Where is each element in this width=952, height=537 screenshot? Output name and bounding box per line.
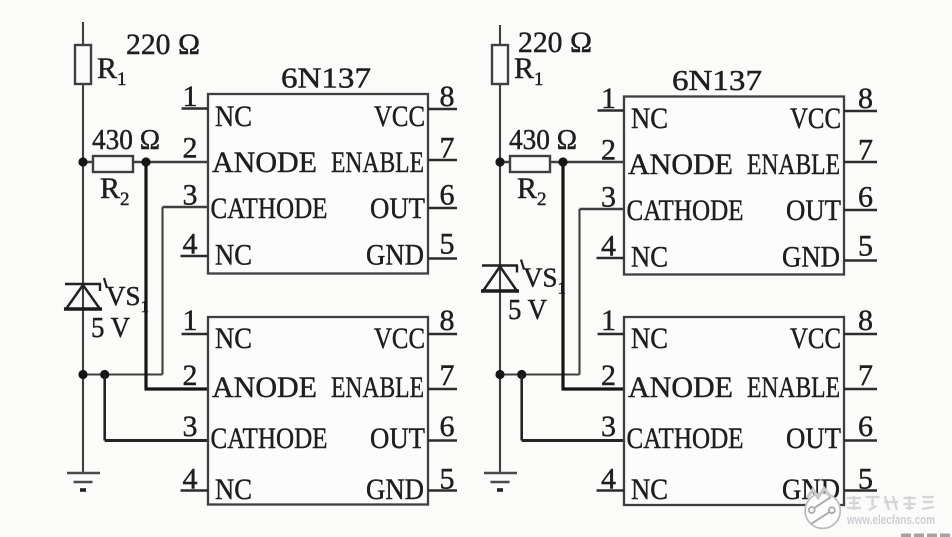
svg-text:1: 1: [601, 82, 616, 115]
svg-text:ENABLE: ENABLE: [331, 146, 424, 179]
wire left top CATHODE vertical: [161, 207, 163, 375]
svg-text:OUT: OUT: [786, 422, 841, 455]
svg-text:3: 3: [183, 179, 198, 212]
svg-text:5: 5: [858, 463, 873, 496]
junction dot right cathode-branch: [517, 370, 526, 379]
wire left bottom CATHODE vertical: [103, 375, 106, 441]
svg-text:8: 8: [440, 80, 455, 113]
optocoupler 6N137 left-top body: [208, 94, 428, 274]
junction dot left rail-lower: [78, 370, 87, 379]
junction dot right R2-output: [558, 157, 567, 166]
svg-text:GND: GND: [782, 241, 840, 274]
svg-text:2: 2: [601, 359, 616, 392]
pin 1 stub left-bottom: [182, 333, 209, 336]
svg-text:OUT: OUT: [370, 192, 425, 225]
svg-text:R1: R1: [97, 52, 127, 90]
pin 7 stub left-top: [428, 159, 457, 162]
ground left: [67, 472, 100, 475]
junction dot right rail-R2: [495, 157, 504, 166]
svg-text:6N137: 6N137: [281, 64, 371, 95]
pin 1 stub right-bottom: [598, 333, 625, 336]
svg-text:430 Ω: 430 Ω: [509, 125, 577, 156]
svg-text:430 Ω: 430 Ω: [92, 125, 160, 156]
pin 8 stub left-bottom: [428, 333, 457, 336]
svg-text:220 Ω: 220 Ω: [126, 28, 200, 61]
svg-text:NC: NC: [215, 239, 252, 272]
svg-text:5: 5: [440, 228, 455, 261]
wire right main vertical rail: [499, 25, 501, 473]
svg-text:6: 6: [440, 179, 455, 212]
svg-text:ANODE: ANODE: [212, 371, 317, 404]
wire right bottom CATHODE vertical: [520, 375, 523, 441]
svg-text:5 V: 5 V: [508, 295, 547, 326]
svg-text:ANODE: ANODE: [212, 146, 317, 179]
zener diode VS1 right triangle: [483, 267, 517, 292]
svg-text:1: 1: [183, 80, 198, 113]
svg-text:8: 8: [858, 82, 873, 115]
wire left lower node horizontal: [83, 373, 163, 375]
svg-text:OUT: OUT: [370, 422, 425, 455]
svg-text:6: 6: [440, 410, 455, 443]
pin 1 stub right-top: [598, 109, 625, 112]
svg-text:2: 2: [601, 134, 616, 167]
pin 1 stub left-top: [182, 107, 209, 110]
optocoupler 6N137 left-bottom body: [208, 317, 428, 505]
svg-text:6: 6: [858, 410, 873, 443]
junction dot left rail-R2: [78, 157, 87, 166]
svg-text:GND: GND: [366, 473, 424, 506]
pin 8 stub left-top: [428, 108, 457, 111]
svg-text:GND: GND: [366, 239, 424, 272]
svg-text:NC: NC: [631, 473, 668, 506]
svg-text:ENABLE: ENABLE: [747, 148, 840, 181]
svg-text:CATHODE: CATHODE: [627, 194, 744, 227]
svg-text:NC: NC: [215, 473, 252, 506]
svg-text:CATHODE: CATHODE: [627, 422, 744, 455]
pin 6 stub right-top: [844, 209, 877, 212]
svg-text:ENABLE: ENABLE: [747, 371, 840, 404]
svg-text:5: 5: [858, 230, 873, 263]
pin 4 stub left-top: [181, 255, 209, 258]
pin 8 stub right-bottom: [844, 333, 877, 336]
svg-text:CATHODE: CATHODE: [211, 422, 328, 455]
zener diode VS1 right cathode bar: [482, 264, 518, 267]
junction dot left cathode-branch: [100, 370, 109, 379]
svg-text:7: 7: [858, 134, 873, 167]
svg-text:2: 2: [183, 359, 198, 392]
svg-text:4: 4: [601, 463, 616, 496]
designator VS1 right: [521, 260, 524, 270]
resistor R1 right: [492, 45, 508, 84]
svg-text:4: 4: [183, 228, 198, 261]
svg-text:6N137: 6N137: [672, 66, 762, 97]
pin 8 stub right-top: [844, 110, 877, 113]
watermark elecfans logo circle: [805, 489, 840, 529]
svg-text:VS1: VS1: [106, 281, 149, 316]
svg-text:4: 4: [183, 463, 198, 496]
svg-text:8: 8: [858, 304, 873, 337]
svg-text:5 V: 5 V: [91, 313, 130, 344]
svg-text:3: 3: [183, 410, 198, 443]
svg-text:VCC: VCC: [790, 102, 841, 135]
pin 5 stub left-top: [428, 257, 457, 260]
wire left main vertical rail: [82, 22, 84, 473]
svg-text:OUT: OUT: [786, 194, 841, 227]
svg-text:NC: NC: [631, 241, 668, 274]
svg-text:VCC: VCC: [790, 322, 841, 355]
svg-text:R2: R2: [517, 172, 547, 210]
pin 6 stub left-bottom: [428, 439, 457, 442]
zener diode VS1 left cathode bar: [65, 283, 101, 286]
optocoupler 6N137 right-top body: [624, 97, 844, 275]
resistor R2 left: [93, 156, 133, 172]
pin 7 stub right-bottom: [844, 388, 877, 391]
svg-text:CATHODE: CATHODE: [211, 192, 328, 225]
pin 7 stub right-top: [844, 161, 877, 164]
wire right top CATHODE horizontal to pin3: [580, 208, 626, 210]
svg-text:VCC: VCC: [374, 100, 425, 133]
svg-text:6: 6: [858, 181, 873, 214]
junction dot right rail-lower: [495, 370, 504, 379]
svg-text:NC: NC: [631, 102, 668, 135]
svg-text:7: 7: [858, 359, 873, 392]
wire right lower node horizontal: [500, 373, 580, 375]
wire left bottom ANODE horizontal to pin2 (thick): [145, 387, 209, 390]
wire right top CATHODE vertical: [578, 209, 580, 375]
svg-text:VS1: VS1: [523, 263, 566, 298]
pin 6 stub left-top: [428, 207, 457, 210]
pin 7 stub left-bottom: [428, 388, 457, 391]
optocoupler 6N137 right-bottom body: [624, 317, 844, 505]
pin 4 stub right-bottom: [597, 489, 625, 492]
designator VS1 left: [104, 278, 107, 288]
pin 4 stub right-top: [597, 257, 625, 260]
wire left R2 row to pin2: [83, 161, 208, 163]
pin 4 stub left-bottom: [181, 489, 209, 492]
wire right bottom ANODE vertical (thick): [561, 162, 564, 389]
svg-text:ENABLE: ENABLE: [331, 371, 424, 404]
wire right bottom ANODE horizontal to pin2 (thick): [562, 387, 626, 390]
wire left bottom CATHODE horizontal to pin3: [105, 439, 208, 442]
wire right R2 row to pin2: [500, 161, 625, 163]
svg-text:www.elecfans.com: www.elecfans.com: [846, 513, 935, 527]
pin 5 stub right-bottom: [844, 489, 877, 492]
pin 6 stub right-bottom: [844, 439, 877, 442]
svg-text:1: 1: [183, 304, 198, 337]
svg-text:3: 3: [601, 181, 616, 214]
svg-text:1: 1: [601, 304, 616, 337]
wire left top CATHODE horizontal to pin3: [163, 206, 209, 208]
svg-text:NC: NC: [215, 100, 252, 133]
junction dot left R2-output: [141, 157, 150, 166]
svg-text:3: 3: [601, 410, 616, 443]
pin 5 stub right-top: [844, 259, 877, 262]
watermark text dianzi fashaoyou (stylised): [847, 496, 934, 510]
ground right: [484, 472, 517, 475]
svg-text:VCC: VCC: [374, 322, 425, 355]
zener diode VS1 left triangle: [66, 285, 100, 309]
svg-text:NC: NC: [631, 322, 668, 355]
wire left bottom ANODE vertical (thick): [144, 162, 147, 389]
svg-text:ANODE: ANODE: [628, 371, 733, 404]
pin 5 stub left-bottom: [428, 489, 457, 492]
svg-text:R2: R2: [100, 172, 130, 210]
svg-text:5: 5: [440, 463, 455, 496]
caption fragment bottom-right (cropped): [901, 534, 950, 537]
svg-text:NC: NC: [215, 322, 252, 355]
resistor R1 left: [75, 45, 91, 84]
svg-text:7: 7: [440, 359, 455, 392]
wire right bottom CATHODE horizontal to pin3: [522, 439, 625, 442]
svg-text:2: 2: [183, 132, 198, 165]
svg-text:7: 7: [440, 132, 455, 165]
svg-text:4: 4: [601, 230, 616, 263]
svg-text:ANODE: ANODE: [628, 148, 733, 181]
svg-text:8: 8: [440, 304, 455, 337]
resistor R2 right: [510, 156, 550, 172]
